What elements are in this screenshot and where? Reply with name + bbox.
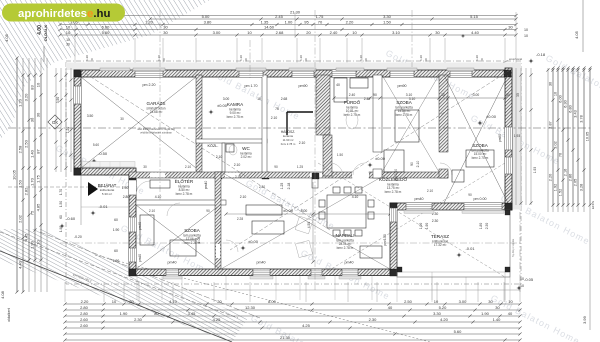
svg-text:1.93: 1.93: [533, 167, 537, 174]
svg-text:2.28: 2.28: [237, 217, 243, 221]
svg-text:3.00: 3.00: [223, 97, 230, 101]
svg-text:2.10: 2.10: [149, 209, 155, 213]
kozlekedo west stub: [312, 178, 318, 188]
wc fixtures: [229, 145, 237, 155]
svg-text:4.10: 4.10: [169, 299, 178, 304]
svg-text:pm40: pm40: [345, 261, 354, 265]
furniture nappali: [140, 78, 494, 258]
svg-text:2.20: 2.20: [548, 174, 552, 181]
right wall windows: [505, 127, 512, 150]
szoba-bottom east wall: [215, 172, 221, 269]
svg-text:30: 30: [163, 30, 168, 35]
szoba-top east wall: [439, 75, 448, 152]
svg-text:90: 90: [410, 162, 414, 166]
svg-text:2.40: 2.40: [349, 93, 356, 97]
svg-text:OLDALK: OLDALK: [43, 25, 48, 42]
svg-text:2.58: 2.58: [17, 145, 22, 154]
svg-text:2.80: 2.80: [80, 311, 89, 316]
svg-text:bmv 2.78 m: bmv 2.78 m: [396, 113, 413, 117]
svg-text:5.60: 5.60: [454, 329, 463, 334]
svg-text:10: 10: [508, 299, 513, 304]
svg-text:3.30: 3.30: [383, 14, 392, 19]
svg-text:1.50: 1.50: [59, 201, 63, 207]
svg-text:3.02: 3.02: [553, 141, 557, 148]
svg-text:±0.00: ±0.00: [486, 114, 497, 119]
svg-text:pm40: pm40: [138, 254, 142, 262]
svg-text:4.25: 4.25: [302, 323, 311, 328]
svg-text:1.20: 1.20: [299, 55, 303, 61]
nappali interior dim line: [226, 213, 390, 215]
svg-text:1.70: 1.70: [59, 189, 63, 195]
svg-text:30: 30: [29, 117, 34, 122]
svg-text:oldalkert: oldalkert: [7, 308, 11, 322]
garage bottom wall: [74, 168, 136, 175]
svg-text:pm40: pm40: [415, 197, 424, 201]
svg-text:3.10: 3.10: [409, 97, 416, 101]
svg-text:2.40: 2.40: [330, 30, 339, 35]
svg-text:1.20: 1.20: [239, 55, 243, 61]
eloter: [150, 180, 170, 188]
svg-text:3.78: 3.78: [579, 115, 583, 122]
garage X: [81, 77, 196, 168]
svg-text:bmv 2.78 m: bmv 2.78 m: [385, 190, 402, 194]
svg-text:2.20: 2.20: [346, 19, 355, 24]
svg-text:1.20: 1.20: [17, 98, 22, 107]
svg-text:60: 60: [114, 218, 118, 222]
right-of-house short dim cluster: [515, 68, 517, 205]
svg-text:EFCS: EFCS: [591, 201, 595, 209]
svg-text:10: 10: [352, 30, 357, 35]
svg-text:6.80: 6.80: [568, 105, 572, 112]
door arcs: [168, 177, 182, 191]
svg-text:10: 10: [524, 34, 528, 38]
left dimension columns: [16, 58, 18, 292]
svg-text:30: 30: [120, 117, 124, 121]
terasz outline: [397, 210, 510, 277]
bejarat triangle: [88, 182, 98, 196]
aprohirdetes.hu logo: [2, 4, 125, 22]
windows bottom walls: [166, 269, 179, 276]
svg-text:ereszvonal: ereszvonal: [509, 57, 522, 61]
vertical extension lines from top block to wall: [74, 38, 76, 66]
bottom dimension rows: [65, 303, 520, 305]
svg-text:4.10: 4.10: [352, 195, 359, 199]
svg-text:60: 60: [59, 215, 63, 219]
right dimension columns: [547, 68, 549, 212]
svg-text:5.00: 5.00: [202, 14, 211, 19]
svg-text:90: 90: [206, 209, 210, 213]
svg-text:pm 1.70: pm 1.70: [245, 84, 258, 88]
svg-text:4.45: 4.45: [23, 233, 28, 242]
svg-text:1.90: 1.90: [481, 311, 490, 316]
svg-text:5.60: 5.60: [93, 143, 99, 147]
svg-text:4.55: 4.55: [307, 222, 311, 229]
svg-text:1.92: 1.92: [553, 184, 557, 191]
door gaps in corridor wall: [225, 173, 239, 178]
boundary diagonal line: [0, 251, 232, 342]
svg-text:10: 10: [553, 92, 557, 96]
lintel marks above top wall: [100, 68, 130, 71]
svg-text:20: 20: [129, 299, 134, 304]
svg-text:bmv 2.78 m: bmv 2.78 m: [281, 142, 296, 146]
svg-text:4.25: 4.25: [213, 317, 222, 322]
big szoba X: [444, 75, 508, 203]
porch roof dashed line: [8, 186, 129, 188]
interior dim line through rooms y98: [334, 97, 505, 99]
furniture furdo: [346, 111, 358, 129]
nappali east wall: [390, 203, 397, 276]
svg-text:3.99: 3.99: [582, 315, 587, 324]
svg-text:2.50: 2.50: [23, 139, 28, 148]
kamra east wall: [262, 75, 267, 176]
svg-text:bmv 2.78 m: bmv 2.78 m: [337, 246, 354, 250]
svg-text:60: 60: [114, 249, 118, 253]
svg-text:10: 10: [524, 28, 528, 32]
furdo east wall: [373, 75, 382, 152]
svg-text:90: 90: [274, 165, 278, 169]
svg-text:pm90: pm90: [299, 84, 308, 88]
windows top wall: [135, 70, 163, 77]
svg-text:bmv 2.75 m: bmv 2.75 m: [344, 113, 361, 117]
svg-text:2.08: 2.08: [197, 237, 201, 244]
svg-text:2.86: 2.86: [568, 174, 572, 181]
eaves shading top & right: [66, 63, 516, 71]
furniture szoba right: [466, 150, 494, 167]
svg-text:2.10: 2.10: [235, 175, 241, 179]
svg-text:bmv 2.75 m: bmv 2.75 m: [227, 115, 244, 119]
svg-text:1.90: 1.90: [113, 259, 120, 263]
svg-text:2.10: 2.10: [240, 195, 247, 199]
corner blocks: [74, 70, 81, 77]
svg-text:2.16: 2.16: [563, 169, 567, 176]
svg-text:3.20: 3.20: [23, 93, 28, 102]
svg-text:20: 20: [306, 30, 311, 35]
svg-text:-0.60: -0.60: [66, 216, 76, 221]
svg-text:30: 30: [548, 82, 552, 86]
svg-text:30: 30: [35, 112, 40, 117]
svg-text:SZOBA: SZOBA: [472, 143, 489, 148]
svg-text:-0.20: -0.20: [74, 235, 82, 239]
svg-text:10: 10: [441, 93, 445, 97]
svg-text:30: 30: [488, 299, 493, 304]
svg-text:4.05: 4.05: [4, 33, 9, 42]
svg-text:1.90: 1.90: [425, 223, 429, 230]
furniture szoba top: [395, 110, 419, 142]
svg-text:pm 0.00: pm 0.00: [474, 197, 487, 201]
svg-text:4.20: 4.20: [440, 317, 449, 322]
svg-text:10: 10: [257, 97, 261, 101]
svg-text:2.10: 2.10: [299, 141, 306, 145]
paving hatch band bottom-left: [0, 229, 248, 342]
svg-text:10: 10: [520, 284, 524, 288]
svg-text:TERASZ: TERASZ: [431, 234, 449, 239]
svg-text:4.85: 4.85: [35, 203, 40, 212]
svg-text:Ny-Dny-i tájolás: Ny-Dny-i tájolás: [511, 238, 515, 257]
svg-text:1.25: 1.25: [280, 183, 284, 190]
svg-text:75: 75: [29, 210, 34, 215]
svg-text:védőfal a láthatást zónában: védőfal a láthatást zónában: [140, 131, 172, 135]
svg-text:pm40: pm40: [257, 261, 266, 265]
svg-text:1.20: 1.20: [359, 55, 363, 61]
svg-text:4.40: 4.40: [471, 30, 480, 35]
svg-text:3.00: 3.00: [473, 93, 480, 97]
svg-text:90: 90: [468, 193, 472, 197]
top-right vertical line: [582, 0, 584, 52]
main south wall over terrace: [390, 203, 512, 210]
szoba bottom furniture: [140, 215, 154, 245]
svg-text:4.40: 4.40: [17, 260, 22, 269]
svg-text:8.00: 8.00: [301, 209, 308, 213]
extension lines bottom: [64, 282, 66, 302]
svg-text:±0.00: ±0.00: [248, 239, 259, 244]
svg-text:1.40: 1.40: [493, 317, 502, 322]
svg-text:3.43: 3.43: [573, 110, 577, 117]
dark L partition near shaft: [287, 111, 313, 113]
svg-text:1.40: 1.40: [29, 149, 34, 158]
svg-text:83: 83: [29, 85, 34, 90]
svg-text:SZOBA: SZOBA: [184, 228, 201, 233]
svg-text:30: 30: [163, 24, 168, 29]
svg-text:2.10: 2.10: [416, 161, 420, 168]
svg-text:1.75: 1.75: [35, 174, 40, 183]
svg-text:30: 30: [495, 305, 500, 310]
svg-text:2.68: 2.68: [276, 30, 285, 35]
svg-text:30: 30: [516, 93, 520, 97]
garage threshold strip: [82, 162, 135, 168]
GK diamond: [48, 115, 62, 129]
svg-text:3.00: 3.00: [213, 30, 222, 35]
svg-text:1.90: 1.90: [122, 186, 129, 190]
svg-text:1.75: 1.75: [316, 14, 325, 19]
svg-text:pm90: pm90: [398, 84, 407, 88]
svg-text:30: 30: [66, 43, 70, 47]
svg-text:70: 70: [558, 153, 562, 157]
svg-text:12.30: 12.30: [245, 305, 256, 310]
svg-text:10: 10: [35, 240, 40, 245]
svg-text:3.80: 3.80: [204, 19, 213, 24]
svg-text:40: 40: [336, 83, 340, 87]
svg-text:NAPPALI: NAPPALI: [335, 233, 354, 238]
svg-text:30: 30: [143, 165, 147, 169]
nappali-terasz door: [390, 208, 397, 222]
svg-text:5.60: 5.60: [102, 30, 111, 35]
svg-text:75: 75: [275, 107, 279, 111]
svg-text:87: 87: [35, 149, 40, 154]
svg-text:2.10: 2.10: [185, 165, 191, 169]
svg-text:1.50: 1.50: [337, 153, 343, 157]
right exterior wall: [505, 68, 512, 210]
svg-text:17.32 m²: 17.32 m²: [434, 243, 447, 247]
svg-text:30: 30: [506, 93, 510, 97]
svg-text:pm90: pm90: [498, 134, 502, 142]
garage left wall window: [74, 86, 81, 104]
svg-text:10: 10: [35, 82, 40, 87]
svg-text:90: 90: [373, 93, 377, 97]
garage east wall: [196, 75, 202, 172]
svg-text:1.70: 1.70: [29, 177, 34, 186]
eloter top wall part of corridor line (already) ; eloter/szoba divider: [136, 200, 226, 205]
svg-text:pm 6.00: pm 6.00: [383, 234, 387, 246]
watermark texts: [54, 48, 600, 342]
svg-text:2.30: 2.30: [369, 317, 378, 322]
svg-text:1.50: 1.50: [383, 19, 392, 24]
svg-text:2.80: 2.80: [80, 305, 89, 310]
svg-text:3.10: 3.10: [392, 30, 401, 35]
szoba top X: [382, 75, 439, 172]
svg-text:2.30: 2.30: [134, 317, 143, 322]
svg-text:1.20: 1.20: [475, 55, 479, 61]
svg-text:80: 80: [154, 311, 159, 316]
svg-text:1.20: 1.20: [85, 55, 89, 61]
svg-text:2.60: 2.60: [80, 323, 89, 328]
nappali/kozlekedo dashed diagonals: [318, 163, 505, 277]
svg-text:1.00: 1.00: [285, 19, 294, 24]
left wing west wall: [129, 175, 136, 276]
svg-text:4.08: 4.08: [0, 290, 5, 299]
left wing bottom wall: [129, 269, 397, 276]
svg-text:70: 70: [318, 19, 323, 24]
svg-text:3.50: 3.50: [87, 114, 94, 118]
svg-text:KAMRA: KAMRA: [227, 102, 244, 107]
svg-text:21.30: 21.30: [290, 10, 301, 15]
svg-text:pm40: pm40: [168, 261, 177, 265]
svg-text:10.05: 10.05: [11, 169, 16, 180]
svg-text:20: 20: [217, 299, 222, 304]
svg-text:KÖZL.: KÖZL.: [208, 144, 219, 148]
corridor wall y172 with door gaps: [129, 172, 352, 178]
svg-text:2.40: 2.40: [364, 97, 371, 101]
svg-text:1.20: 1.20: [157, 55, 161, 61]
svg-text:1.25: 1.25: [297, 165, 303, 169]
svg-text:4.05: 4.05: [574, 30, 579, 39]
south wall window sills: [404, 210, 434, 213]
roof overhang dashed outline: [66, 61, 521, 284]
bed top szoba: [384, 150, 404, 172]
svg-text:-0.01: -0.01: [98, 204, 108, 209]
svg-text:±0.00: ±0.00: [283, 208, 294, 213]
svg-text:2.50: 2.50: [404, 299, 413, 304]
svg-text:2.80: 2.80: [123, 195, 130, 199]
svg-text:bmv 2.78 m: bmv 2.78 m: [176, 192, 193, 196]
svg-text:-0.01: -0.01: [465, 246, 475, 251]
road hatch top-left corner: [0, 0, 210, 140]
svg-text:10: 10: [434, 299, 439, 304]
svg-text:GARÁZS: GARÁZS: [147, 100, 166, 106]
svg-text:2.30: 2.30: [432, 219, 439, 223]
svg-text:2.30: 2.30: [259, 185, 265, 189]
baseline y290: [65, 289, 520, 291]
svg-text:95: 95: [304, 19, 309, 24]
svg-text:2.20: 2.20: [81, 299, 90, 304]
svg-text:pm 2.20: pm 2.20: [143, 83, 156, 87]
svg-text:-0.18: -0.18: [536, 52, 546, 57]
svg-text:2.60: 2.60: [80, 317, 89, 322]
svg-text:3.28: 3.28: [579, 184, 583, 191]
svg-text:bmv 2.70 m: bmv 2.70 m: [472, 156, 489, 160]
svg-text:10: 10: [66, 24, 71, 29]
svg-text:5.20: 5.20: [439, 305, 448, 310]
svg-text:40: 40: [388, 305, 393, 310]
long thin diagonal across bottom dims: [95, 255, 430, 342]
terrace extension verticals: [396, 277, 398, 302]
west wall windows & entry door: [129, 180, 136, 195]
svg-text:6.00: 6.00: [558, 95, 562, 102]
svg-text:6.30: 6.30: [563, 100, 567, 107]
svg-text:2.68: 2.68: [281, 97, 288, 101]
svg-text:alsó állítsd ráknéveltt c tégl: alsó állítsd ráknéveltt c tégla szg: [137, 127, 175, 131]
svg-text:2.10: 2.10: [271, 116, 278, 120]
svg-text:2.82: 2.82: [23, 187, 28, 196]
svg-text:2.05: 2.05: [573, 179, 577, 186]
svg-text:3.50: 3.50: [56, 97, 60, 104]
svg-text:21.30: 21.30: [280, 335, 291, 340]
svg-text:14.60: 14.60: [264, 24, 275, 29]
svg-text:1.20: 1.20: [145, 19, 154, 24]
svg-text:3.30: 3.30: [433, 311, 442, 316]
svg-text:±0.00: ±0.00: [217, 103, 228, 108]
svg-text:2.02 m²: 2.02 m²: [241, 155, 252, 159]
svg-text:pm 0.00: pm 0.00: [394, 169, 398, 181]
svg-text:1.80: 1.80: [479, 223, 483, 230]
svg-text:30: 30: [508, 24, 513, 29]
svg-text:3.45: 3.45: [188, 311, 197, 316]
svg-text:5.30 m²: 5.30 m²: [102, 192, 112, 196]
svg-text:1.20: 1.20: [66, 127, 70, 134]
svg-text:2.87: 2.87: [548, 121, 552, 128]
svg-text:2.10: 2.10: [234, 163, 241, 167]
svg-text:10: 10: [112, 299, 117, 304]
left-of-house short dim cluster: [55, 68, 57, 172]
svg-text:-0.05: -0.05: [524, 277, 534, 282]
wc kozl divider: [222, 143, 225, 172]
terasz columns: [505, 210, 510, 215]
svg-text:2.10: 2.10: [427, 189, 433, 193]
svg-text:10: 10: [247, 30, 252, 35]
top exterior wall: [74, 70, 512, 77]
kamra south / wc top wall: [196, 139, 267, 143]
svg-text:2.18: 2.18: [287, 183, 291, 190]
szoba bottom X: [136, 205, 220, 269]
svg-text:1.90: 1.90: [120, 311, 129, 316]
middle shaft wall: [316, 75, 330, 135]
svg-text:10: 10: [66, 30, 71, 35]
svg-text:2.10: 2.10: [216, 155, 223, 159]
svg-text:1.90: 1.90: [113, 228, 120, 232]
svg-text:2.30: 2.30: [485, 223, 489, 230]
svg-text:WC: WC: [242, 146, 250, 151]
svg-text:1.20: 1.20: [419, 55, 423, 61]
svg-text:8.00: 8.00: [268, 299, 277, 304]
svg-text:24.68 m²: 24.68 m²: [150, 110, 163, 114]
svg-text:2.02: 2.02: [17, 214, 22, 223]
svg-text:40: 40: [508, 311, 513, 316]
svg-text:10.05: 10.05: [585, 132, 589, 142]
dining table + chairs: [327, 195, 366, 228]
svg-text:10: 10: [66, 38, 70, 42]
svg-text:4.10: 4.10: [155, 195, 162, 199]
svg-text:aprohirdetese.hu: aprohirdetese.hu: [18, 8, 110, 20]
svg-text:5.15: 5.15: [470, 14, 479, 19]
svg-text:6.60: 6.60: [102, 24, 111, 29]
svg-text:1.90: 1.90: [29, 240, 34, 249]
section dash-dot line across plan: [8, 127, 592, 129]
center axes dashdot: [159, 10, 161, 200]
svg-text:1,93: 1,93: [514, 134, 521, 138]
svg-text:30: 30: [435, 30, 440, 35]
armchairs: [295, 216, 313, 234]
svg-text:2.45: 2.45: [275, 14, 284, 19]
svg-text:1.52: 1.52: [558, 189, 562, 196]
